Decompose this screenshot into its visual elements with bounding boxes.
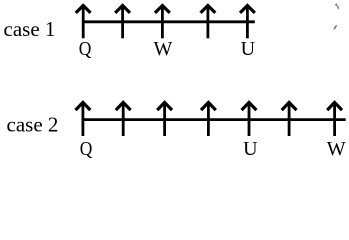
label U (case 1) xyxy=(241,38,256,60)
arrow 2 (case 1) xyxy=(115,6,130,39)
arrow 1 (above Q, case 1) xyxy=(76,6,91,39)
label Q (case 1) xyxy=(79,38,92,60)
label Q (case 2) xyxy=(80,138,93,160)
svg-text:case 2: case 2 xyxy=(7,113,59,137)
arrow 1 (above Q, case 2) xyxy=(76,102,91,136)
case 1 caption xyxy=(4,17,56,41)
arrow 4 (case 1) xyxy=(201,6,216,39)
label W (case 1) xyxy=(153,38,172,60)
case 2 caption xyxy=(7,113,59,137)
svg-text:U: U xyxy=(241,38,256,60)
case 1 base line xyxy=(82,20,255,23)
stray mark top-right (dot + squiggle) xyxy=(335,4,338,9)
svg-text:Q: Q xyxy=(80,138,93,160)
arrow 3 (case 2) xyxy=(157,102,172,136)
svg-text:W: W xyxy=(327,138,346,160)
arrow 5 (above U, case 1) xyxy=(240,6,255,39)
arrow 6 (case 2) xyxy=(282,102,297,136)
arrow 4 (case 2) xyxy=(201,102,216,136)
case 2 base line xyxy=(82,118,346,121)
svg-text:W: W xyxy=(153,38,172,60)
arrow 7 (above W, case 2) xyxy=(327,102,342,136)
arrow 3 (above W, case 1) xyxy=(155,6,170,39)
svg-text:case 1: case 1 xyxy=(4,17,56,41)
label U (case 2) xyxy=(243,138,258,160)
label W (case 2) xyxy=(327,138,346,160)
stray mark right margin (apostrophe) xyxy=(334,26,336,29)
arrow 5 (above U, case 2) xyxy=(242,102,257,136)
arrow 2 (case 2) xyxy=(116,102,131,136)
svg-text:U: U xyxy=(243,138,258,160)
svg-text:Q: Q xyxy=(79,38,92,60)
